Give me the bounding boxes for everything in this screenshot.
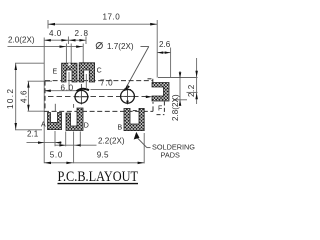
component outline dashed rectangle <box>44 81 153 112</box>
svg-text:4.0: 4.0 <box>49 29 62 38</box>
extension lines from top rows down to pad tops <box>66 44 83 64</box>
label dia 1.7(2X) <box>96 43 102 49</box>
svg-text:P.C.B.LAYOUT: P.C.B.LAYOUT <box>58 169 139 185</box>
svg-text:2.2: 2.2 <box>187 84 196 97</box>
short centerline ticks above bottom pads <box>55 104 73 112</box>
svg-text:A: A <box>41 121 46 128</box>
hole centerline vertical 1 <box>80 84 82 105</box>
soldering pad A <box>48 113 62 130</box>
svg-text:7.0: 7.0 <box>100 79 113 88</box>
soldering pad C <box>79 63 94 82</box>
soldering pads leader <box>137 138 151 148</box>
dim 2.8(2X) right vertical <box>173 71 187 106</box>
svg-text:2.6: 2.6 <box>159 40 171 49</box>
outline step near pad F <box>148 79 165 115</box>
svg-text:4.6: 4.6 <box>19 90 28 103</box>
svg-text:2.2(2X): 2.2(2X) <box>98 137 125 146</box>
extension line left vertical x=44 <box>43 38 45 164</box>
svg-text:C: C <box>97 67 102 74</box>
curved arrow hook onto hole 1 <box>77 89 89 91</box>
dim row 4.0 / 2.8 <box>44 37 86 45</box>
svg-text:B: B <box>118 125 123 132</box>
svg-text:2.1: 2.1 <box>27 130 39 139</box>
soldering pad F <box>152 83 169 102</box>
hole centerline vertical 2 <box>127 85 129 102</box>
svg-text:E: E <box>53 69 58 76</box>
dim 17.0 arrowheads <box>48 23 157 26</box>
svg-text:9.5: 9.5 <box>97 151 109 160</box>
pad slot centerlines <box>68 72 70 90</box>
soldering pad B <box>124 108 144 130</box>
svg-text:PADS: PADS <box>161 150 180 159</box>
hole 1 <box>75 90 88 103</box>
svg-text:10.2: 10.2 <box>6 88 15 109</box>
leader from dia label to hole 2 <box>125 47 149 91</box>
svg-text:2.8(2X): 2.8(2X) <box>171 94 180 121</box>
extension line right of 17.0 down to right side <box>156 20 158 78</box>
hole 2 <box>121 89 135 103</box>
bottom extension lines <box>55 131 144 163</box>
centerline horizontal through holes <box>48 96 149 98</box>
centerline arrow to pad F <box>146 96 153 99</box>
outline dash visible in pad B slot <box>133 110 137 112</box>
svg-text:D: D <box>84 122 89 129</box>
dim 10.2 vertical <box>15 63 44 130</box>
svg-text:2.0(2X): 2.0(2X) <box>8 36 35 45</box>
soldering pad D <box>66 108 83 131</box>
svg-text:5.0: 5.0 <box>50 151 63 160</box>
dim 4.6 vertical <box>28 81 53 111</box>
svg-text:2.8: 2.8 <box>75 29 90 38</box>
svg-text:1.7(2X): 1.7(2X) <box>107 42 134 51</box>
soldering pad E <box>62 63 77 82</box>
dim 17.0 top dimension line <box>48 20 157 29</box>
svg-text:17.0: 17.0 <box>103 13 121 22</box>
svg-text:F: F <box>158 105 162 112</box>
dim 2.2 right vertical <box>158 58 198 104</box>
